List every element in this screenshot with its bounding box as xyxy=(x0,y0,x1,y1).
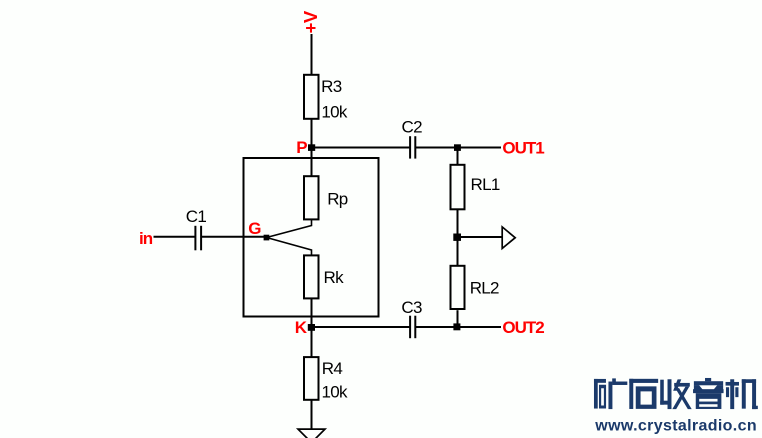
svg-text:R3: R3 xyxy=(321,77,342,96)
glyph shi left vertical xyxy=(629,379,633,409)
svg-text:RL2: RL2 xyxy=(470,279,499,298)
glyph yin bar2 xyxy=(693,389,724,393)
glyph shou cross stroke 2 xyxy=(672,387,689,410)
svg-text:OUT2: OUT2 xyxy=(502,318,544,337)
resistor Rk xyxy=(304,255,319,298)
svg-text:OUT1: OUT1 xyxy=(502,138,544,157)
svg-text:C1: C1 xyxy=(186,207,207,226)
svg-text:in: in xyxy=(139,229,153,248)
svg-text:G: G xyxy=(248,219,261,238)
glyph kuang narrow box xyxy=(599,385,606,409)
wire node K to C3 xyxy=(312,326,410,328)
wire C2 to OUT1 xyxy=(416,147,501,149)
wire Rk bottom through box edge and node K to R4 xyxy=(311,299,313,357)
svg-text:R4: R4 xyxy=(322,359,343,378)
node K xyxy=(308,324,315,331)
glyph shou left hook xyxy=(660,380,664,405)
wire in to C1 xyxy=(154,236,195,238)
svg-text:www.crystalradio.cn: www.crystalradio.cn xyxy=(594,417,757,434)
wire OUT1 node to RL1 xyxy=(457,148,459,165)
svg-text:Rk: Rk xyxy=(324,268,345,287)
glyph yin sun block xyxy=(696,393,722,409)
glyph ji mu vertical xyxy=(730,379,734,409)
svg-text:10k: 10k xyxy=(321,103,348,122)
svg-text:C2: C2 xyxy=(402,118,423,137)
svg-text:RL1: RL1 xyxy=(471,175,500,194)
wire R3 to Rp through node P xyxy=(311,119,313,177)
glyph shi top bar xyxy=(629,379,658,383)
glyph yin small marks xyxy=(694,385,703,389)
glyph kuang left vertical xyxy=(594,379,598,409)
glyph ji mu left tick xyxy=(726,387,729,397)
capacitor C3 xyxy=(409,316,411,339)
glyph shi box xyxy=(636,386,657,409)
svg-text:K: K xyxy=(295,318,308,337)
glyph ji mu bar xyxy=(726,382,739,386)
resistor R4 xyxy=(304,357,319,400)
svg-text:C3: C3 xyxy=(401,298,422,317)
wire R4 to ground xyxy=(311,400,313,429)
wire C1 to node G xyxy=(202,236,267,238)
glyph ji mu right tick xyxy=(735,387,738,397)
node G xyxy=(264,235,270,241)
glyph yin sun white slots xyxy=(699,399,717,407)
wire +V to R3 xyxy=(311,34,313,74)
node OUT2 junction xyxy=(453,323,460,330)
capacitor C2 xyxy=(409,136,411,158)
wire middle node to output triangle xyxy=(458,236,503,238)
capacitor C1 xyxy=(194,226,196,251)
wire node P to C2 xyxy=(312,147,410,149)
glyph shou bar xyxy=(674,383,690,387)
svg-text:+V: +V xyxy=(300,10,321,33)
glyph yin bar1 xyxy=(694,381,723,385)
glyph kuang guang vertical xyxy=(608,382,612,410)
wire C3 to OUT2 xyxy=(416,326,501,328)
node OUT1 junction xyxy=(454,144,461,151)
watermark chinese logo xyxy=(594,378,758,409)
glyph kuang guang tick xyxy=(612,378,616,381)
svg-text:P: P xyxy=(296,138,307,157)
node P xyxy=(308,144,315,151)
resistor RL2 xyxy=(451,266,465,309)
wire node G to Rk top stub xyxy=(267,238,312,257)
tube model box xyxy=(244,158,379,317)
resistor R3 xyxy=(304,75,319,119)
svg-text:10k: 10k xyxy=(322,383,349,402)
glyph kuang top bar xyxy=(594,379,606,383)
svg-text:Rp: Rp xyxy=(327,190,348,209)
glyph ji ji foot xyxy=(752,406,758,409)
ground xyxy=(298,429,325,438)
glyph ji ji right vertical xyxy=(752,379,756,409)
glyph shou pie xyxy=(673,379,681,390)
node middle junction xyxy=(453,234,461,241)
wire RL2 to OUT2 node xyxy=(457,310,459,327)
glyph ji ji left vertical xyxy=(742,379,746,408)
output triangle xyxy=(502,227,515,249)
resistor Rp xyxy=(304,176,319,219)
glyph kuang guang bar xyxy=(612,382,627,385)
glyph shou middle vertical xyxy=(668,379,672,409)
resistor RL1 xyxy=(451,165,465,210)
wire RL1 to RL2 through middle node xyxy=(457,210,459,267)
glyph shou cross stroke 1 xyxy=(675,388,691,409)
glyph ji ji top bar xyxy=(742,379,756,383)
wire Rp bottom stub xyxy=(267,219,312,237)
glyph yin top tick xyxy=(705,378,711,381)
